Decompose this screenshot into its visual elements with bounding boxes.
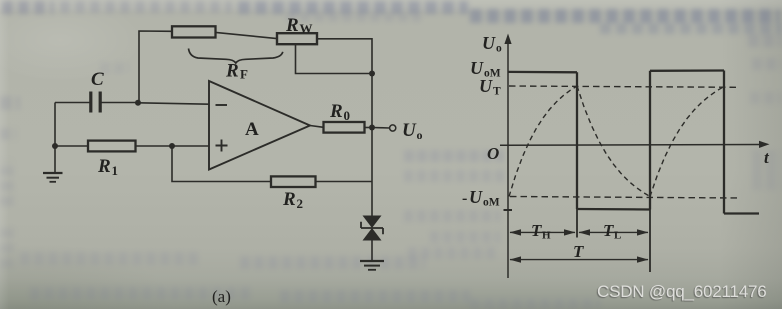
wire: RW right end to right rail corner [317,39,372,74]
svg-text:o: o [417,128,423,142]
label O [487,144,499,163]
svg-text:U: U [479,76,493,96]
dimension extension line at t=T [649,210,651,273]
svg-text:T: T [573,242,584,261]
label UT [479,76,501,98]
svg-text:T: T [493,86,501,98]
svg-text:T: T [603,221,614,240]
op-amp A [209,81,310,170]
label T [573,242,584,261]
label RF [225,61,248,82]
svg-text:R: R [329,101,343,122]
label A [245,119,259,140]
dimension extension line at t=TH [576,209,578,238]
dimension arrow T [510,256,649,262]
svg-text:F: F [240,67,248,82]
wire: op-amp output to R0 [310,126,324,128]
label Uo (circuit output) [402,120,423,142]
svg-text:1: 1 [112,163,119,178]
svg-text:R: R [225,61,239,82]
svg-text:o: o [496,43,502,55]
svg-text:T: T [531,221,542,240]
brace for RF group [189,49,283,64]
ground (left) [43,173,63,182]
wire: capacitor right plate to node A [100,102,139,104]
label t [764,148,770,167]
label -UoM [462,187,500,209]
svg-text:H: H [542,230,551,242]
wire: zener to ground [371,241,373,261]
wire: left node to R1 [55,145,88,147]
threshold -UoM dashed line [510,197,740,199]
resistor R1 [88,141,136,152]
threshold UT dashed line [509,86,740,87]
capacitor voltage exponential (charge 2, dashed) [650,87,724,197]
resistor R2 [271,176,316,187]
wire: R1 to op-amp non-inverting input [136,145,210,147]
svg-text:O: O [487,144,499,163]
wire: R2 to right rail [316,181,373,183]
svg-text:C: C [91,69,104,90]
label RW [285,15,313,36]
wire: RW wiper tie-down [296,44,373,73]
node: left rail / R1 junction [52,143,58,149]
resistor (upper feedback resistor, part of RF) [172,26,216,37]
label R1 [97,156,118,178]
output terminal Uo [390,125,396,131]
label TH [531,221,551,242]
node A (C / feedback / inverting-input junction) [135,100,141,106]
wire: RF resistor to RW [216,32,278,38]
node: wiper junction on right rail [369,71,375,77]
svg-text:t: t [764,148,770,167]
capacitor C [91,92,100,113]
svg-text:A: A [245,119,259,140]
label UoM [470,58,501,80]
svg-text:R: R [282,189,296,210]
waveform X axis [500,141,770,148]
label (a) [212,287,231,306]
label R2 [282,189,303,211]
svg-text:U: U [469,187,483,207]
label Uo (axis) [482,33,502,55]
dimension arrow TH [510,229,576,235]
svg-text:R: R [285,15,299,36]
svg-text:U: U [482,33,496,53]
wire: output node to terminal [372,127,390,130]
square wave uo(t) [508,71,759,214]
dimension arrow TL [579,229,649,235]
bleed-through smudge rows (decorative) [2,1,54,14]
wire: node A to op-amp inverting input [138,103,209,104]
potentiometer RW [277,33,317,44]
ground (zener) [360,261,384,270]
label TL [603,221,621,242]
wire: right rail (top node down to output node) [371,74,373,128]
zener diode pair (bidirectional) [363,216,382,241]
label C [91,69,104,90]
wire: R0 to output node [365,127,373,129]
watermark [597,282,767,302]
waveform Y axis [504,34,511,279]
label R0 [329,101,350,123]
svg-text:L: L [614,230,621,242]
svg-text:0: 0 [344,108,351,123]
capacitor voltage exponential (discharge, dashed) [577,86,650,197]
resistor R0 [324,122,365,133]
svg-text:-: - [462,190,467,207]
svg-text:(a): (a) [212,287,231,306]
wire: node B down to R2 row [172,146,271,182]
wire: feedback vertical riser [139,31,172,103]
svg-text:2: 2 [297,196,304,211]
wire: left rail to capacitor left plate [55,102,91,104]
svg-text:U: U [470,58,484,78]
svg-text:W: W [300,21,313,36]
wire: left rail vertical [54,103,56,173]
svg-text:oM: oM [483,197,500,209]
svg-text:R: R [97,156,111,177]
svg-text:U: U [402,120,417,141]
tick -UoM on axis [504,209,513,211]
node: output junction on right rail [369,125,375,131]
wire: right rail down to zener pair [371,128,373,216]
capacitor voltage exponential (charge 1, dashed) [509,86,577,197]
node B (non-inverting input / R2 junction) [169,143,175,149]
